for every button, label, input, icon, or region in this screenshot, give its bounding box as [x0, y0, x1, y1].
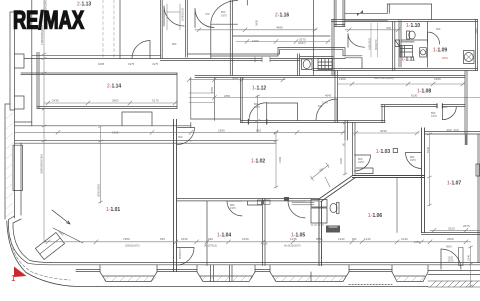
- svg-text:1-1.03: 1-1.03: [376, 149, 390, 155]
- dashed counter line: [311, 224, 324, 226]
- svg-text:7960: 7960: [123, 237, 130, 241]
- svg-text:600: 600: [436, 27, 441, 31]
- svg-text:1-1.07: 1-1.07: [447, 181, 461, 187]
- svg-text:1-1.12: 1-1.12: [252, 86, 266, 92]
- svg-text:2500(2x972): 2500(2x972): [125, 244, 140, 248]
- dim horizontal y41.5: [236, 40, 330, 44]
- corridor bottom wall: [15, 141, 276, 144]
- chamfer wall diagonal: [318, 176, 355, 202]
- svg-text:900: 900: [178, 135, 183, 139]
- west wall pilaster upper: [15, 54, 25, 68]
- room 1-1.11 washing machine: [400, 46, 413, 58]
- west outer wall: [10, 12, 15, 218]
- svg-text:700: 700: [205, 12, 210, 16]
- svg-text:1140: 1140: [364, 237, 371, 241]
- svg-text:1: 1: [11, 274, 16, 283]
- room 2-1.14 left wall pair: [37, 52, 39, 108]
- room 2-1.16 bottom wall: [187, 48, 279, 56]
- svg-text:1970: 1970: [230, 206, 236, 210]
- room 1-1.09 door arc: [428, 32, 440, 44]
- east edge step: [478, 134, 480, 263]
- west wall lower outer: [5, 104, 10, 219]
- room 1-1.09 shower: [464, 51, 475, 64]
- svg-text:1-1.02: 1-1.02: [251, 159, 265, 165]
- nook right of door: [267, 103, 298, 121]
- svg-text:2x810/BIO: 2x810/BIO: [368, 38, 371, 50]
- bath block bottom wall y69.5: [313, 69, 478, 71]
- svg-text:1-1.11: 1-1.11: [401, 57, 415, 63]
- niche above wall y176: [356, 168, 373, 174]
- svg-text:4640: 4640: [325, 93, 332, 97]
- dim vertical x100: [99, 126, 103, 204]
- toilet right of wall: [330, 204, 337, 213]
- room 1.07 bottom wall: [422, 233, 480, 235]
- svg-text:4480: 4480: [276, 26, 283, 30]
- svg-text:410: 410: [454, 128, 459, 132]
- dim horizontal y29.8: [195, 28, 400, 32]
- door arc room 1-1.12 bottom: [249, 103, 267, 121]
- dotted line between bays: [349, 284, 392, 286]
- top outer wall right of shaft: [345, 13, 388, 20]
- hall dim lines: [187, 78, 480, 103]
- door jambs 1.08: [437, 104, 442, 108]
- wall y48 to bath: [278, 48, 362, 69]
- dim horizontal y230 right: [430, 228, 480, 232]
- bay hatch texture: [104, 276, 424, 281]
- door arc room 1.05: [288, 201, 305, 218]
- south room door arc right: [441, 249, 461, 269]
- svg-text:800: 800: [172, 42, 177, 46]
- svg-text:1970: 1970: [431, 114, 437, 118]
- room 1-1.08 left wall: [335, 71, 338, 123]
- svg-text:1-1.01: 1-1.01: [106, 207, 120, 213]
- door arc 1.02 to 1.03: [355, 155, 371, 171]
- door arc small room x162-185: [164, 6, 184, 26]
- svg-text:1-1.10: 1-1.10: [406, 23, 420, 29]
- room 1-1.08 bottom door arc left: [316, 99, 337, 120]
- svg-text:1960: 1960: [252, 39, 259, 43]
- top band wall y75.5 double: [195, 76, 465, 78]
- chimney shaft: [334, 0, 345, 27]
- svg-text:2-1.16: 2-1.16: [275, 12, 289, 18]
- svg-text:1630: 1630: [181, 237, 188, 241]
- svg-text:(4x1610/2007): (4x1610/2007): [284, 244, 301, 248]
- svg-text:1845: 1845: [475, 28, 479, 34]
- stair arrow in room 1.01: [52, 210, 70, 224]
- svg-text:2190: 2190: [278, 156, 282, 163]
- svg-text:460: 460: [447, 128, 452, 132]
- wall y61 under small rooms: [161, 60, 301, 62]
- east wall mid x466: [465, 71, 467, 135]
- svg-text:2620: 2620: [448, 227, 455, 231]
- top-right notch box: [387, 4, 431, 20]
- dim stub top small rooms: [167, 4, 180, 30]
- curve dashed hidden: [11, 238, 71, 280]
- bottom rooms top wall: [177, 198, 319, 201]
- building bottom wall: [50, 263, 480, 265]
- svg-text:600: 600: [352, 237, 357, 241]
- dim horizontal y84: [338, 82, 466, 86]
- toilet room 1-1.10: [407, 31, 410, 39]
- east outer wall upper: [476, 20, 478, 71]
- facade bay 4: [392, 265, 428, 282]
- svg-text:150: 150: [263, 242, 268, 246]
- toilet lower bath: [302, 59, 313, 70]
- dim vertical x276: [274, 132, 278, 189]
- svg-text:1970: 1970: [410, 158, 416, 162]
- svg-text:900/2: 900/2: [442, 57, 449, 60]
- diagonal dim chamfer: [311, 163, 331, 187]
- wall x160 double: [161, 0, 163, 59]
- rotated window in curved wall: [35, 232, 64, 259]
- niche rect right: [459, 248, 464, 266]
- door arc big room x211-237: [211, 1, 238, 25]
- dim vertical x429: [428, 133, 432, 206]
- corridor west pocket: [15, 121, 32, 123]
- corridor top wall left: [15, 125, 191, 127]
- svg-text:2140: 2140: [401, 237, 408, 241]
- svg-text:4460: 4460: [232, 76, 239, 80]
- main thick wall x175: [174, 120, 177, 272]
- wall x231 double: [230, 0, 232, 76]
- beam line y36: [233, 35, 330, 37]
- svg-text:900/2070: 900/2070: [375, 39, 378, 50]
- facade bay 2: [197, 265, 255, 282]
- svg-text:3175: 3175: [152, 62, 159, 66]
- svg-text:1-1.08: 1-1.08: [417, 89, 431, 95]
- svg-text:1960: 1960: [218, 129, 225, 133]
- red triangle marker: [14, 267, 27, 278]
- wall 1.04/1.05: [263, 198, 266, 265]
- svg-text:1600: 1600: [414, 240, 420, 244]
- dim bowtie arrow: [357, 10, 363, 16]
- svg-text:(4x1970x2): (4x1970x2): [204, 244, 217, 248]
- room 2-1.14 top wall: [21, 73, 177, 75]
- room 2-1.14 right wall: [176, 73, 178, 109]
- room 1.07 radiator: [476, 164, 480, 176]
- wall 1.05/1.06: [319, 200, 322, 266]
- wall x313 vertical: [313, 0, 315, 76]
- divider wall 1.02/1.03: [353, 123, 356, 176]
- svg-text:1970: 1970: [254, 105, 260, 109]
- door arc closet: [177, 248, 195, 266]
- west inner wall: [31, 0, 33, 126]
- long wall y58.5: [24, 57, 345, 59]
- svg-text:800/1970: 800/1970: [178, 248, 182, 259]
- west wall jog: [9, 216, 22, 227]
- dim vertical x44: [42, 0, 46, 243]
- curve plinth outer: [7, 221, 97, 287]
- curve wall outer face: [9, 227, 51, 265]
- wall x332 vertical: [332, 20, 334, 76]
- svg-text:1-1.04: 1-1.04: [217, 233, 231, 239]
- wall x211 partial: [210, 24, 212, 58]
- svg-text:3430: 3430: [255, 19, 259, 26]
- svg-text:3000/2800: 3000/2800: [97, 183, 101, 197]
- room 1-1.11 sink: [420, 48, 427, 57]
- kitchen dark block: [326, 226, 340, 233]
- west wall lower inner: [20, 143, 22, 215]
- room 1-1.10 walls: [401, 22, 428, 68]
- svg-text:3030: 3030: [380, 129, 387, 133]
- svg-text:1975: 1975: [128, 62, 135, 66]
- threshold dark rect: [284, 197, 289, 201]
- svg-text:1970: 1970: [221, 13, 227, 17]
- wall closet/1.04: [206, 201, 208, 266]
- svg-text:1140: 1140: [322, 101, 328, 105]
- door arc room 1.04: [227, 201, 242, 216]
- dim horizontal y133 right: [353, 131, 420, 135]
- door arc room 2-1.13: [132, 41, 150, 59]
- door arc small room x188-214: [195, 9, 214, 28]
- plinth line: [97, 286, 428, 288]
- door jamb rects 1.02 bottom: [258, 200, 271, 205]
- svg-text:2675: 2675: [463, 224, 470, 228]
- dim vertical x345: [343, 122, 347, 175]
- diagonal dim curve: [53, 228, 83, 243]
- west wall niche: [13, 145, 22, 190]
- bath dim verticals with texts: [371, 23, 378, 57]
- cupboard room 1.04: [248, 201, 262, 205]
- svg-text:945: 945: [160, 237, 165, 241]
- svg-text:1140: 1140: [338, 237, 345, 241]
- bath block top wall y20.5: [332, 20, 478, 22]
- svg-text:1000: 1000: [339, 157, 343, 164]
- vestibule on corridor: [122, 112, 152, 126]
- svg-text:1-1.06: 1-1.06: [368, 213, 382, 219]
- svg-text:890: 890: [387, 26, 392, 30]
- svg-text:940: 940: [208, 237, 213, 241]
- svg-text:2-1.14: 2-1.14: [107, 84, 121, 90]
- facade bay 3 wide: [270, 265, 349, 282]
- door jambs y58 x255-270: [255, 57, 270, 62]
- door arc 1.08 right: [442, 107, 456, 120]
- bath door arc left room: [348, 34, 365, 48]
- partition x120: [119, 0, 121, 59]
- main dim chain y241.8: [44, 240, 471, 244]
- svg-text:8107/BIO(240): 8107/BIO(240): [374, 76, 394, 80]
- svg-text:1962: 1962: [112, 131, 119, 135]
- door arc corridor at main wall: [178, 128, 195, 145]
- room 1.03 top wall segments: [393, 149, 397, 153]
- room 1-1.12 left wall: [241, 78, 243, 123]
- door jambs 1.12: [248, 120, 266, 125]
- svg-text:1-1.05: 1-1.05: [291, 233, 305, 239]
- right sill hatch: [428, 281, 480, 287]
- bath mid wall x393: [393, 22, 395, 71]
- facade band between bays: [76, 270, 480, 275]
- wall 1.03/1.07 divider: [422, 128, 425, 233]
- room 2-1.13 bottom wall: [32, 54, 161, 56]
- bath anteroom wall x297: [298, 54, 300, 76]
- wall x400: [399, 21, 401, 67]
- facade bay 1: [100, 265, 157, 282]
- dim vertical x470: [469, 246, 473, 287]
- roof dashed lines: [103, 0, 114, 58]
- wall below x190 stub: [190, 123, 192, 142]
- svg-text:1630: 1630: [242, 237, 249, 241]
- svg-text:1090/1610: 1090/1610: [181, 7, 185, 21]
- room 2-1.14 bottom wall: [37, 107, 177, 109]
- svg-text:2435: 2435: [52, 99, 59, 103]
- shower square room 1.05: [311, 200, 327, 224]
- svg-text:1850: 1850: [224, 94, 231, 98]
- svg-text:1970: 1970: [448, 259, 454, 263]
- svg-text:5340: 5340: [426, 146, 430, 153]
- bath small compartment: [313, 57, 315, 71]
- dim horizontal y103: [44, 101, 177, 105]
- dim vertical x257.7: [256, 95, 260, 132]
- wall stub x346: [345, 121, 348, 141]
- curve wall inner face: [13, 227, 50, 263]
- bench lines: [292, 203, 314, 205]
- corridor top wall right double: [191, 119, 385, 123]
- svg-text:1960: 1960: [434, 77, 441, 81]
- thin line x397: [396, 178, 398, 233]
- svg-text:1850: 1850: [210, 86, 214, 93]
- svg-text:2802: 2802: [112, 99, 119, 103]
- svg-text:RE/MAX: RE/MAX: [13, 7, 84, 35]
- west wall pilaster lower: [15, 96, 25, 109]
- room 1.08 bottom wall right: [381, 105, 465, 123]
- svg-text:5175: 5175: [152, 99, 159, 103]
- svg-text:2340: 2340: [467, 254, 471, 261]
- svg-text:965: 965: [316, 237, 321, 241]
- svg-text:9540: 9540: [446, 245, 452, 249]
- svg-text:2600: 2600: [447, 237, 454, 241]
- svg-text:800: 800: [443, 105, 448, 109]
- svg-text:1360: 1360: [339, 77, 346, 81]
- svg-text:1970: 1970: [358, 160, 364, 164]
- wall x186 double: [186, 0, 188, 57]
- door arc 1.03 to 1.07: [406, 153, 422, 169]
- wall y131.5-134 right: [425, 132, 480, 135]
- stairwell walls: [191, 78, 215, 121]
- duct box: [395, 40, 400, 47]
- svg-text:810: 810: [318, 104, 323, 108]
- svg-text:(2567): (2567): [298, 41, 306, 45]
- top stub x247: [246, 0, 248, 5]
- svg-text:6495: 6495: [98, 62, 105, 66]
- washer grid lower bath: [318, 59, 333, 70]
- pier below wall: [465, 134, 468, 145]
- svg-text:1-1.09: 1-1.09: [433, 48, 447, 54]
- svg-text:550: 550: [256, 129, 261, 133]
- room 1.03 bottom wall thick: [353, 176, 425, 178]
- west wall hatch: [5, 113, 13, 218]
- dim horizontal y132: [15, 130, 345, 134]
- svg-text:3380/2800(180): 3380/2800(180): [40, 154, 44, 174]
